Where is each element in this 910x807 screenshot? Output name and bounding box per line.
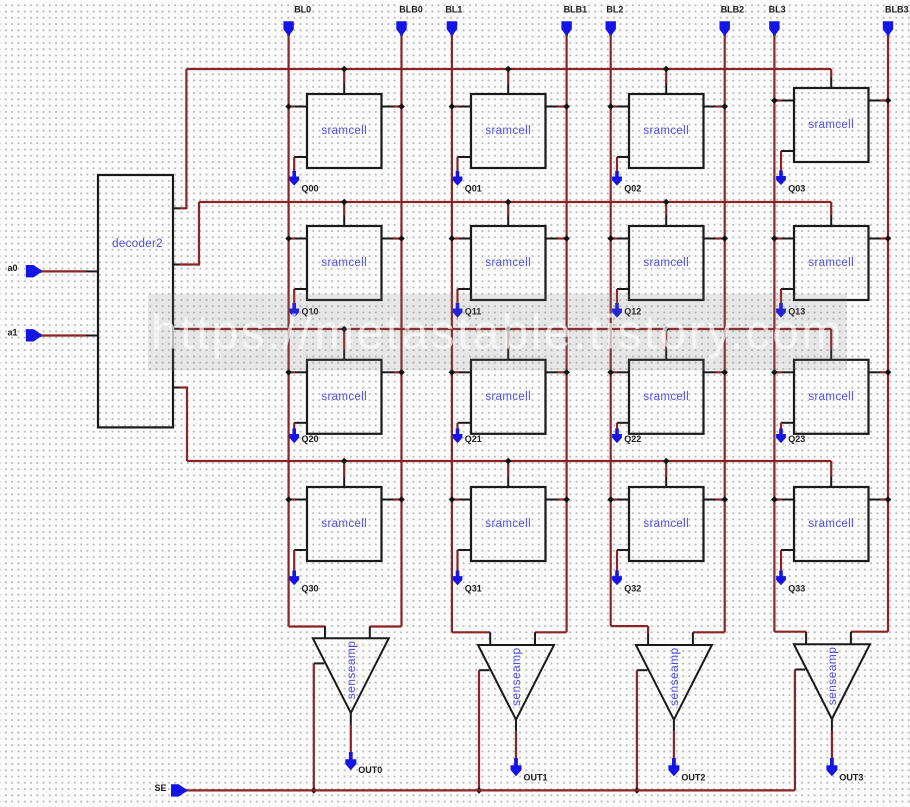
svg-text:BL0: BL0 xyxy=(294,4,311,14)
svg-text:senseamp: senseamp xyxy=(825,647,839,706)
svg-text:BL3: BL3 xyxy=(769,4,786,14)
svg-text:sramcell: sramcell xyxy=(643,257,689,269)
svg-text:OUT0: OUT0 xyxy=(358,765,382,775)
svg-text:a1: a1 xyxy=(8,328,18,338)
svg-text:sramcell: sramcell xyxy=(808,518,854,530)
svg-text:Q30: Q30 xyxy=(302,584,319,594)
svg-text:senseamp: senseamp xyxy=(667,647,681,706)
svg-text:sramcell: sramcell xyxy=(643,518,689,530)
svg-text:SE: SE xyxy=(155,783,167,793)
svg-text:sramcell: sramcell xyxy=(321,125,367,137)
svg-text:Q33: Q33 xyxy=(788,584,805,594)
svg-text:sramcell: sramcell xyxy=(808,257,854,269)
svg-text:sramcell: sramcell xyxy=(321,257,367,269)
svg-text:OUT1: OUT1 xyxy=(524,773,548,783)
svg-text:sramcell: sramcell xyxy=(643,125,689,137)
svg-text:Q22: Q22 xyxy=(624,434,641,444)
svg-text:OUT3: OUT3 xyxy=(839,773,863,783)
svg-text:https://metastable.tistory.com: https://metastable.tistory.com xyxy=(151,307,844,360)
svg-text:BLB0: BLB0 xyxy=(399,4,423,14)
svg-text:sramcell: sramcell xyxy=(808,119,854,131)
svg-text:sramcell: sramcell xyxy=(485,391,531,403)
svg-text:senseamp: senseamp xyxy=(344,641,358,700)
svg-text:sramcell: sramcell xyxy=(321,518,367,530)
svg-text:Q31: Q31 xyxy=(465,584,482,594)
svg-text:sramcell: sramcell xyxy=(321,391,367,403)
svg-text:Q01: Q01 xyxy=(465,184,482,194)
svg-text:BLB2: BLB2 xyxy=(721,4,745,14)
svg-text:sramcell: sramcell xyxy=(808,391,854,403)
svg-text:senseamp: senseamp xyxy=(509,647,523,706)
svg-text:sramcell: sramcell xyxy=(643,391,689,403)
svg-text:BL2: BL2 xyxy=(606,4,623,14)
svg-text:sramcell: sramcell xyxy=(485,125,531,137)
svg-text:Q21: Q21 xyxy=(465,434,482,444)
svg-text:BLB1: BLB1 xyxy=(564,4,588,14)
svg-text:Q03: Q03 xyxy=(788,184,805,194)
svg-text:Q20: Q20 xyxy=(302,434,319,444)
svg-text:sramcell: sramcell xyxy=(485,257,531,269)
svg-text:BLB3: BLB3 xyxy=(885,4,909,14)
svg-text:sramcell: sramcell xyxy=(485,518,531,530)
svg-text:Q32: Q32 xyxy=(624,584,641,594)
svg-text:BL1: BL1 xyxy=(445,4,462,14)
svg-text:Q00: Q00 xyxy=(302,184,319,194)
svg-text:OUT2: OUT2 xyxy=(681,773,705,783)
svg-text:a0: a0 xyxy=(8,263,18,273)
svg-text:Q02: Q02 xyxy=(624,184,641,194)
svg-text:decoder2: decoder2 xyxy=(112,238,163,250)
svg-text:Q23: Q23 xyxy=(788,434,805,444)
